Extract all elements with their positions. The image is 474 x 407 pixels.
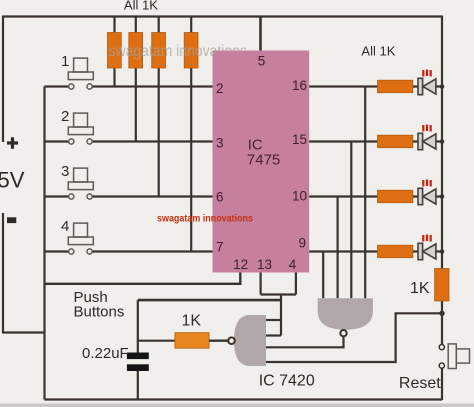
wire LED row 1 (pin 16) xyxy=(309,85,442,87)
wire U2b output to U2a input 3 xyxy=(266,336,344,347)
wire button common rail / lower box left edge xyxy=(43,87,45,400)
LED D4 xyxy=(418,235,436,260)
svg-text:5V: 5V xyxy=(0,168,25,193)
LED D1 xyxy=(418,70,436,95)
svg-text:swagatam innovations: swagatam innovations xyxy=(157,214,253,225)
wire pin 13 down xyxy=(260,273,262,295)
wire drop row1 to gate xyxy=(364,87,366,299)
push button S1 xyxy=(68,58,93,89)
wire pins 13-4 link xyxy=(261,293,296,295)
wire resistor to gate bubble xyxy=(209,340,228,342)
svg-text:All 1K: All 1K xyxy=(124,0,158,13)
wire row 3 (pin 6) xyxy=(45,195,213,197)
wire right rail mid section xyxy=(441,301,443,345)
wire left supply rail upper xyxy=(2,16,4,143)
svg-text:Reset: Reset xyxy=(399,375,441,392)
svg-text:5: 5 xyxy=(258,54,266,69)
svg-text:All 1K: All 1K xyxy=(361,43,395,58)
wire drop row4 to gate xyxy=(322,252,324,299)
svg-text:9: 9 xyxy=(298,236,306,251)
LED D2 xyxy=(418,125,436,150)
wire top supply bus xyxy=(3,15,442,17)
svg-text:IC 7420: IC 7420 xyxy=(259,373,315,390)
resistor 1K (LED row 4) xyxy=(378,245,413,258)
wire LED row 3 (pin 10) xyxy=(309,195,442,197)
svg-text:2: 2 xyxy=(61,108,69,125)
wire LED row 4 (pin 9) xyxy=(309,250,442,252)
svg-text:6: 6 xyxy=(216,190,224,205)
push button S4 xyxy=(68,223,93,254)
wire bottom bus xyxy=(45,398,443,400)
svg-text:16: 16 xyxy=(292,78,307,93)
svg-text:15: 15 xyxy=(292,132,307,147)
svg-text:7: 7 xyxy=(216,240,224,255)
push button S2 xyxy=(68,113,93,144)
wire cap node to resistor xyxy=(138,340,175,342)
node rail row1 xyxy=(440,84,445,89)
svg-text:4: 4 xyxy=(61,218,69,235)
node rail row2 xyxy=(440,139,445,144)
svg-text:Buttons: Buttons xyxy=(74,304,125,321)
wire row 4 (pin 7) xyxy=(45,250,213,252)
svg-text:10: 10 xyxy=(292,189,307,204)
wire right rail top section xyxy=(441,16,443,269)
NAND gate U2a (IC 7420 left, facing left) xyxy=(234,315,266,366)
wire column 4 xyxy=(190,17,192,252)
wire pin 4 down xyxy=(295,273,297,295)
LED D3 xyxy=(418,180,436,205)
wire row 2 (pin 3) xyxy=(45,140,213,142)
resistor 1K (bottom) xyxy=(175,333,209,349)
NAND gate U2b (IC 7420 right, facing down) xyxy=(318,298,373,329)
svg-text:7475: 7475 xyxy=(247,152,280,169)
wire column 3 xyxy=(158,17,160,197)
svg-text:1K: 1K xyxy=(410,280,430,297)
wire drop row2 to gate xyxy=(350,142,352,299)
resistor 1K (LED row 1) xyxy=(378,80,413,93)
wire column 2 xyxy=(135,17,137,142)
battery +5V xyxy=(0,137,25,223)
op-amp U1 IC 7475 body xyxy=(213,51,310,273)
resistor 1K (top col 4) xyxy=(184,33,198,69)
wire gate input 2 xyxy=(266,334,281,336)
resistor 1K (top col 1) xyxy=(108,33,122,69)
wire cap node vertical xyxy=(137,300,139,353)
svg-text:12: 12 xyxy=(233,257,248,272)
resistor 1K (top col 3) xyxy=(152,33,166,69)
wire junction to gate input 4 xyxy=(266,313,442,362)
svg-text:2: 2 xyxy=(216,81,224,96)
push button Reset xyxy=(439,344,469,369)
wire gate input 1 xyxy=(266,319,281,321)
resistor 1K (LED row 2) xyxy=(378,135,413,148)
resistor 1K (right vertical) xyxy=(435,269,449,302)
node junction reset xyxy=(439,311,444,316)
node rail row3 xyxy=(440,194,445,199)
wire pin 12 to lower box xyxy=(45,273,241,284)
wire left supply rail lower xyxy=(2,213,4,333)
svg-text:13: 13 xyxy=(257,257,272,272)
svg-text:0.22uF: 0.22uF xyxy=(82,345,129,362)
wire gate inputs 1-2 vertical xyxy=(280,295,282,336)
bottom edge scan smudge xyxy=(0,404,474,407)
resistor 1K (top col 2) xyxy=(129,33,143,69)
svg-text:1K: 1K xyxy=(182,313,202,330)
resistor 1K (LED row 3) xyxy=(378,190,413,203)
node rail row4 xyxy=(440,249,445,254)
svg-text:1: 1 xyxy=(61,53,69,70)
svg-text:3: 3 xyxy=(61,163,69,180)
gate U2b output bubble xyxy=(340,330,346,336)
svg-text:4: 4 xyxy=(289,257,297,272)
wire cap to bottom bus xyxy=(137,371,139,400)
wire node line to cap xyxy=(138,299,281,302)
wire row 1 (pin 2) xyxy=(45,85,213,87)
svg-text:3: 3 xyxy=(216,136,224,151)
gate U2a output bubble xyxy=(228,337,235,344)
wire LED row 2 (pin 15) xyxy=(309,140,442,142)
wire column 1 xyxy=(113,17,115,87)
capacitor C1 0.22uF xyxy=(127,353,149,360)
wire minus rail to button rail xyxy=(2,331,45,333)
wire drop row3 to gate xyxy=(337,197,339,299)
wire right rail bottom section xyxy=(441,368,443,400)
push button S3 xyxy=(68,168,93,199)
wire pin 5 stub xyxy=(259,17,262,51)
